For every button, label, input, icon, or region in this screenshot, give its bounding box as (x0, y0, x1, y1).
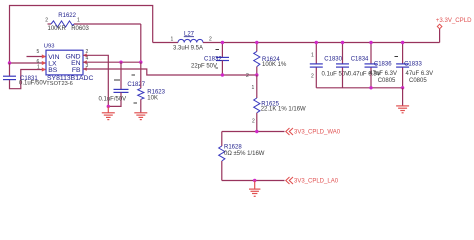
node FB junction (255, 73, 258, 76)
svg-text:TSOT23-6: TSOT23-6 (46, 81, 73, 87)
port 3V3_CPLD_WA0 (286, 128, 293, 135)
ground (249, 181, 260, 197)
node EN/R1622/R1623 (139, 61, 142, 64)
svg-text:U93: U93 (44, 43, 55, 49)
svg-text:2: 2 (209, 36, 212, 42)
svg-text:5: 5 (37, 49, 40, 55)
wire R1622 pin1 down to EN (140, 24, 142, 62)
svg-text:FB: FB (72, 67, 81, 74)
node WA0/R1625 (255, 130, 258, 133)
node R1624 top (255, 41, 258, 44)
svg-text:+3.3V_CPLD: +3.3V_CPLD (436, 17, 472, 24)
svg-text:R1622: R1622 (58, 13, 76, 19)
svg-text:3V3_CPLD_LA0: 3V3_CPLD_LA0 (294, 178, 339, 184)
wire GND pin 2 (83, 55, 108, 106)
wire 3V3_CPLD_WA0 (222, 131, 285, 133)
resistor R1623 (140, 62, 142, 88)
svg-text:2: 2 (311, 74, 314, 80)
svg-text:3.3uH 9.5A: 3.3uH 9.5A (173, 45, 203, 51)
svg-text:2: 2 (252, 118, 255, 124)
capacitor C1833 (402, 43, 404, 88)
capacitor C1827 (120, 62, 122, 89)
svg-text:C0805: C0805 (378, 78, 396, 84)
ground (102, 106, 115, 119)
svg-text:BS: BS (48, 67, 58, 74)
U93 pin arrows (42, 53, 87, 71)
svg-text:1: 1 (77, 18, 80, 24)
wire C1831 top (9, 63, 11, 76)
svg-text:2: 2 (45, 18, 48, 24)
wire ground stem (402, 88, 404, 106)
svg-text:22.1K 1% 1/16W: 22.1K 1% 1/16W (261, 107, 306, 113)
svg-text:C1830: C1830 (324, 57, 342, 63)
wire capacitor ground rail (316, 87, 402, 89)
svg-text:1: 1 (311, 53, 314, 59)
svg-text:100K 1%: 100K 1% (262, 62, 287, 68)
svg-text:C1834: C1834 (351, 57, 369, 63)
svg-text:C1832: C1832 (204, 56, 222, 62)
node C1832 bottom (221, 73, 224, 76)
ground (396, 106, 409, 113)
svg-text:C1827: C1827 (127, 82, 145, 88)
wire LX pin 6 to rail (10, 62, 47, 64)
resistor R1628 (221, 132, 223, 147)
svg-text:3V3_CPLD_WA0: 3V3_CPLD_WA0 (294, 129, 341, 135)
svg-text:0.1uF/50V: 0.1uF/50V (99, 96, 127, 102)
node C1832 top (221, 41, 224, 44)
node EN/C1827 (119, 61, 122, 64)
svg-text:22pF 50V: 22pF 50V (191, 63, 217, 69)
resistor R1625 (256, 75, 258, 98)
wire C1831 bottom to BS pin 1 (10, 70, 47, 89)
wire FB pin 3 (83, 69, 257, 75)
resistor R1624 (256, 43, 258, 52)
svg-text:1: 1 (252, 85, 255, 91)
node LX junction (8, 61, 11, 64)
svg-text:R0603: R0603 (71, 26, 89, 32)
inductor L27 (153, 42, 178, 44)
capacitor C1831 (3, 76, 16, 79)
capacitor C1832 (221, 43, 223, 58)
svg-text:10K: 10K (147, 96, 158, 102)
svg-text:2: 2 (246, 73, 249, 79)
port 3V3_CPLD_LA0 (286, 177, 293, 184)
ground (134, 113, 147, 120)
svg-text:C0805: C0805 (409, 78, 427, 84)
wire 3V3_CPLD_LA0 (222, 180, 285, 182)
svg-text:47uF 6.3V: 47uF 6.3V (406, 71, 434, 77)
svg-text:47uF 6.3V: 47uF 6.3V (369, 71, 397, 77)
wire output rail (203, 42, 440, 44)
svg-text:1: 1 (37, 65, 40, 71)
node rail corner (401, 86, 404, 89)
node rail/ground (369, 86, 372, 89)
wire LX net top rail (10, 6, 153, 64)
power +3.3V_CPLD (439, 29, 441, 43)
capacitor C1836 (370, 43, 372, 88)
svg-text:100KR: 100KR (48, 26, 67, 32)
svg-text:1: 1 (171, 36, 174, 42)
wire VIN stub pin 5 (27, 56, 47, 58)
capacitor C1830 (315, 43, 317, 88)
op-amp U93 body (46, 50, 83, 75)
svg-text:C1836: C1836 (374, 61, 392, 67)
svg-text:0.1uF 50V: 0.1uF 50V (322, 71, 350, 77)
svg-text:R1628: R1628 (224, 145, 242, 151)
resistor R1622 (48, 23, 52, 25)
capacitor C1834 (342, 43, 344, 88)
node LA0/ground (253, 179, 256, 182)
node gnd/C1827 (107, 105, 110, 108)
svg-text:0Ω ±5% 1/16W: 0Ω ±5% 1/16W (224, 151, 265, 157)
wire EN pin 4 (83, 61, 141, 63)
svg-text:0.1uF/50V: 0.1uF/50V (19, 81, 47, 87)
svg-text:C1833: C1833 (404, 61, 422, 67)
